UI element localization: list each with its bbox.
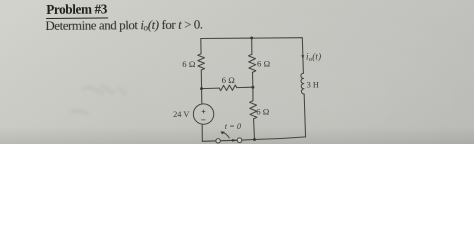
circuit schematic (0, 0, 474, 144)
wire middle horizontal (202, 87, 253, 88)
wire left branch upper (200, 39, 202, 54)
wire middle branch upper (251, 38, 253, 54)
node A junction left mid (200, 87, 203, 90)
wire right branch (302, 38, 305, 137)
wire left branch lower (201, 124, 203, 141)
current arrow io (301, 55, 304, 58)
svg-text:6 Ω: 6 Ω (222, 75, 236, 85)
resistor R1 6ohm left (198, 54, 205, 70)
svg-text:io(t): io(t) (306, 52, 321, 64)
svg-text:t = 0: t = 0 (225, 122, 242, 131)
svg-text:3 H: 3 H (307, 81, 319, 90)
voltage source VS 24V circle (193, 104, 213, 124)
switch SW1 lever arc (222, 132, 229, 138)
faint page bleed-through marks (0, 0, 474, 144)
switch SW1 lever arrowhead (220, 131, 224, 134)
wire left branch to node A (200, 70, 203, 104)
resistor R4 6ohm middle bottom (250, 101, 257, 119)
wire top (201, 37, 302, 40)
wire middle branch mid (252, 72, 255, 100)
node D junction bottom middle (253, 138, 256, 141)
switch SW1 closing arrow on wire (232, 139, 237, 142)
resistor R3 6ohm horizontal (219, 85, 237, 91)
svg-text:6 Ω: 6 Ω (256, 107, 270, 117)
voltage source plus sign (202, 110, 205, 113)
voltage source minus sign (202, 119, 205, 121)
node C junction centre (251, 86, 254, 89)
node B junction top middle (250, 36, 253, 39)
svg-text:24 V: 24 V (173, 110, 189, 119)
switch SW1 terminal left (216, 139, 220, 143)
svg-text:6 Ω: 6 Ω (257, 59, 271, 69)
resistor R2 6ohm middle top (249, 54, 256, 72)
wire bottom (202, 137, 305, 141)
problem title text (0, 0, 474, 60)
svg-text:6 Ω: 6 Ω (182, 59, 196, 69)
wire middle branch lower (253, 119, 256, 140)
inductor L1 3H coil (301, 73, 304, 94)
switch SW1 terminal right (237, 138, 242, 143)
